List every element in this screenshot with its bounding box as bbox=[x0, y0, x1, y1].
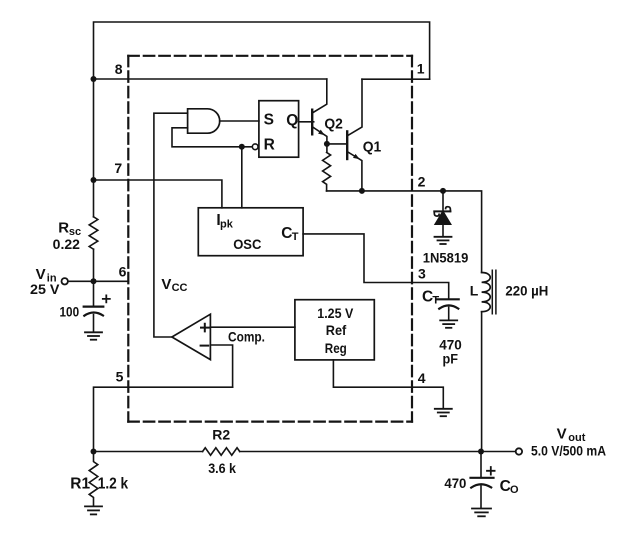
svg-text:O: O bbox=[510, 484, 519, 496]
wire pin 8 to Q2 collector bbox=[94, 78, 327, 80]
node Vin terminal bbox=[61, 278, 67, 284]
svg-text:R: R bbox=[58, 220, 69, 237]
svg-text:S: S bbox=[264, 112, 274, 129]
wire pin 2 switch rail bbox=[327, 191, 482, 273]
diode D1 1N5819 bbox=[434, 191, 451, 236]
capacitor 100uF input bbox=[84, 281, 110, 332]
svg-text:1: 1 bbox=[417, 61, 425, 77]
svg-text:470: 470 bbox=[444, 475, 466, 491]
wire comparator noninverting input to Ref Reg bbox=[210, 326, 295, 328]
node Vout terminal bbox=[516, 448, 522, 454]
IC boundary dashed box bbox=[128, 56, 412, 422]
ground diode bbox=[435, 237, 452, 244]
OSC block bbox=[198, 208, 303, 256]
op-amp comparator bbox=[172, 314, 211, 359]
capacitor CT 470 pF bbox=[438, 299, 459, 320]
junction Vin node bbox=[91, 278, 97, 284]
svg-text:0.22: 0.22 bbox=[53, 236, 81, 252]
svg-text:6: 6 bbox=[119, 263, 127, 279]
svg-text:1N5819: 1N5819 bbox=[423, 249, 469, 265]
svg-text:Ref: Ref bbox=[326, 322, 347, 338]
svg-text:R2: R2 bbox=[212, 426, 230, 442]
svg-text:R1: R1 bbox=[70, 475, 90, 492]
capacitor CO output bbox=[471, 452, 495, 509]
ground CT cap bbox=[440, 320, 457, 327]
ground pin 4 bbox=[435, 409, 452, 416]
svg-text:2: 2 bbox=[418, 174, 426, 190]
svg-text:Q1: Q1 bbox=[363, 138, 382, 155]
junction diode node bbox=[440, 188, 446, 194]
wire Ref Reg to pin 4 ground bbox=[333, 360, 443, 409]
wire pin 6 Vcc input bbox=[68, 280, 128, 282]
1.25 V Ref Reg block bbox=[295, 300, 374, 360]
wire pin 5 to feedback divider bbox=[94, 387, 233, 451]
junction R1 R2 feedback node bbox=[91, 449, 97, 455]
svg-text:3: 3 bbox=[418, 265, 426, 281]
svg-text:Reg: Reg bbox=[325, 340, 347, 356]
wire latch Q output to Q2 base bbox=[299, 121, 314, 123]
wire Vout rail left of R2 bbox=[94, 451, 203, 453]
wire comparator output up to AND input bbox=[154, 113, 188, 337]
svg-text:pk: pk bbox=[220, 219, 234, 231]
junction pin 8 node bbox=[91, 76, 97, 82]
wire left rail pin 8 node to Rsc top bbox=[93, 79, 95, 217]
ground R1 bbox=[85, 506, 102, 514]
wire Vout rail right of R2 bbox=[240, 451, 516, 453]
wire pin 7 to Ipk input of OSC bbox=[94, 180, 222, 208]
svg-text:25 V: 25 V bbox=[30, 281, 60, 297]
svg-text:V: V bbox=[161, 276, 171, 293]
wire top loop from Vin rail up and over to pin 1 drop bbox=[94, 22, 430, 79]
wire AND output to latch S input bbox=[220, 120, 259, 122]
wire comparator inverting input to pin 5 bbox=[210, 345, 232, 387]
svg-text:pF: pF bbox=[443, 351, 459, 367]
node R input inversion bubble bbox=[252, 144, 258, 150]
svg-text:OSC: OSC bbox=[233, 236, 261, 252]
inductor L bbox=[482, 270, 496, 451]
AND gate bbox=[188, 109, 220, 133]
svg-text:T: T bbox=[292, 231, 299, 243]
svg-text:Comp.: Comp. bbox=[228, 328, 265, 344]
svg-text:5: 5 bbox=[116, 368, 124, 384]
svg-text:1.2 k: 1.2 k bbox=[98, 475, 129, 492]
wire oscillator line to AND input and latch R bbox=[172, 128, 252, 147]
junction pin 7 node bbox=[91, 177, 97, 183]
wire OSC CT output to pin 3 bbox=[303, 234, 449, 299]
resistor Rsc bbox=[89, 217, 98, 249]
svg-text:Q: Q bbox=[286, 112, 298, 129]
svg-text:Q2: Q2 bbox=[324, 116, 343, 133]
svg-text:L: L bbox=[470, 282, 479, 298]
svg-text:8: 8 bbox=[115, 61, 123, 77]
svg-text:CC: CC bbox=[172, 282, 188, 294]
ground input cap bbox=[85, 332, 102, 339]
resistor Q2 emitter pulldown bbox=[323, 144, 331, 191]
wire Rsc bottom to Vin node bbox=[93, 249, 95, 281]
ground CO bbox=[472, 509, 491, 517]
junction Vout node bbox=[478, 449, 484, 455]
junction oscillator R node bbox=[239, 144, 245, 150]
svg-text:3.6 k: 3.6 k bbox=[208, 460, 236, 476]
svg-text:4: 4 bbox=[418, 370, 426, 386]
transistor Q2 bbox=[312, 79, 327, 144]
svg-text:1.25 V: 1.25 V bbox=[317, 305, 354, 321]
junction Q2 emitter Q1 base bbox=[324, 141, 330, 147]
resistor R2 bbox=[203, 448, 240, 455]
wire pin 1 into Q1 collector bbox=[362, 78, 430, 80]
latch U1 SR flip-flop bbox=[259, 101, 299, 158]
svg-text:C: C bbox=[281, 225, 292, 242]
svg-text:T: T bbox=[432, 295, 439, 307]
resistor R1 bbox=[89, 452, 98, 506]
svg-text:220 µH: 220 µH bbox=[505, 282, 548, 298]
svg-text:5.0 V/500 mA: 5.0 V/500 mA bbox=[531, 443, 606, 459]
svg-text:R: R bbox=[264, 137, 275, 154]
wire oscillator node down to OSC block bbox=[241, 147, 243, 208]
svg-text:100: 100 bbox=[60, 303, 80, 319]
svg-text:V: V bbox=[557, 425, 567, 442]
svg-text:7: 7 bbox=[114, 160, 122, 176]
transistor Q1 bbox=[327, 79, 362, 191]
junction Q1 emitter pin 2 rail bbox=[359, 188, 365, 194]
